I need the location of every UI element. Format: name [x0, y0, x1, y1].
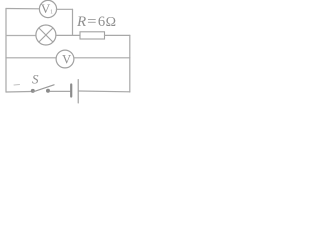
stray dash	[14, 84, 20, 87]
wire battery to right rail	[79, 90, 130, 93]
wire bottom left	[6, 91, 31, 94]
svg-text:R: R	[76, 14, 86, 30]
battery positive plate	[77, 80, 79, 104]
wire drop from top to junction	[72, 9, 74, 35]
voltmeter V	[56, 50, 74, 68]
wire left rail to V	[6, 57, 56, 59]
svg-text:S: S	[32, 71, 39, 86]
resistor R	[80, 32, 105, 39]
svg-text:1: 1	[50, 8, 53, 15]
switch S terminal right	[46, 89, 50, 93]
lamp L	[36, 25, 56, 45]
wire V to right rail	[74, 57, 130, 59]
wire lamp to resistor	[56, 34, 80, 36]
voltmeter V1	[39, 0, 56, 17]
svg-text:Ω: Ω	[106, 15, 116, 30]
svg-text:6: 6	[98, 14, 105, 30]
wire top left to V1	[6, 8, 39, 10]
wire left rail to lamp	[6, 35, 36, 37]
wire resistor to right rail	[105, 34, 130, 36]
svg-text:=: =	[87, 14, 96, 30]
wire V1 right to corner	[56, 8, 72, 10]
switch arm	[33, 85, 54, 92]
wire right rail	[129, 35, 131, 92]
svg-text:V: V	[62, 53, 71, 67]
switch S terminal left	[31, 89, 35, 93]
wire left rail	[5, 9, 7, 93]
battery negative plate	[70, 85, 72, 97]
wire switch to battery	[50, 90, 70, 92]
